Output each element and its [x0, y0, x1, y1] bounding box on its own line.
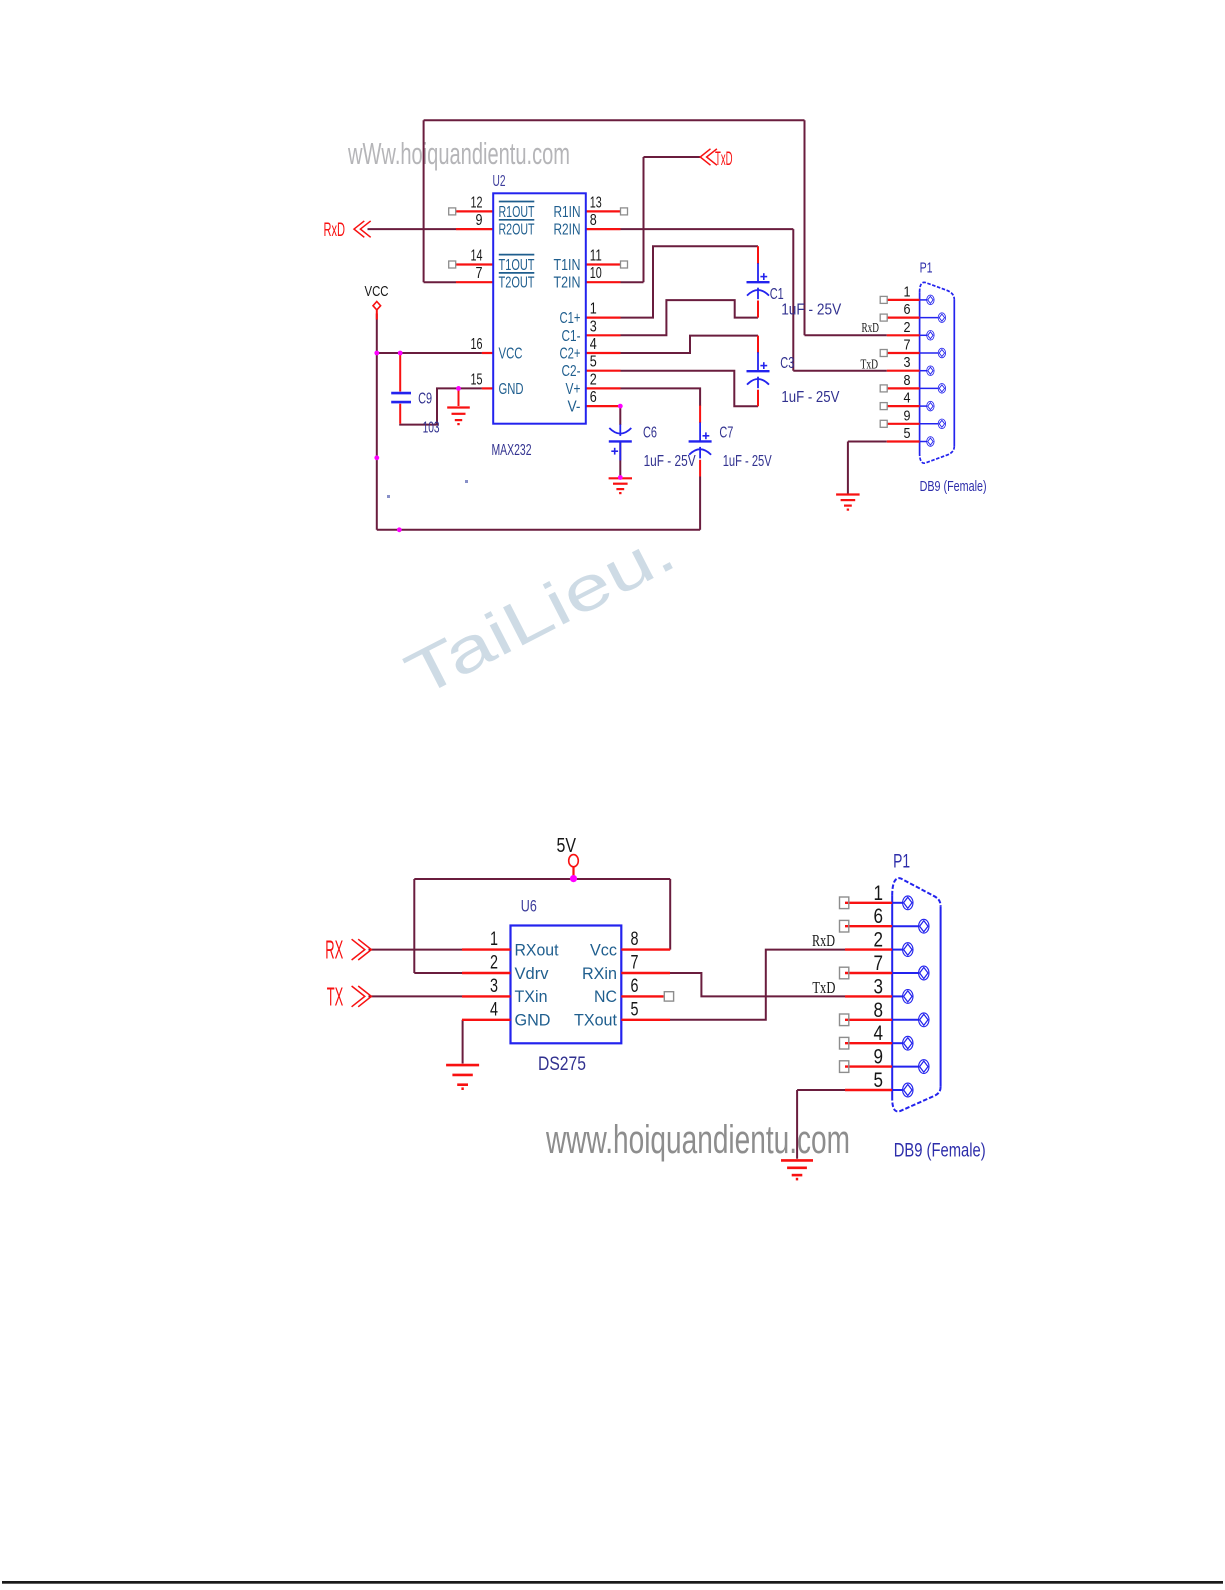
TxD chevrons [700, 149, 717, 165]
DB9-A pin 5 red stub [887, 440, 920, 442]
svg-text:C1+: C1+ [560, 310, 581, 327]
DB9-A no-connect square pin 9 [880, 420, 887, 427]
ground stem at pin 15 [458, 388, 460, 406]
svg-text:5V: 5V [557, 834, 577, 857]
svg-text:DB9 (Female): DB9 (Female) [920, 479, 987, 495]
DB9-B pin 6 socket [892, 919, 929, 933]
DB9-A no-connect square pin 1 [880, 296, 887, 303]
pin 8 R2IN stub [586, 228, 621, 230]
VCC power symbol [373, 302, 381, 320]
svg-text:C2+: C2+ [560, 346, 581, 363]
svg-text:7: 7 [904, 337, 911, 354]
svg-text:C1: C1 [770, 286, 784, 303]
wire C1- pin3 to C1 bottom [621, 300, 759, 335]
underline R1OUT [499, 219, 535, 221]
no-connect square pin 11 [621, 261, 628, 268]
overline R1OUT [499, 201, 535, 203]
svg-text:16: 16 [471, 336, 483, 353]
wire top net (T2OUT to DB9 pin2) horizontal [424, 119, 805, 121]
DB9-A pin 7 socket [920, 348, 946, 358]
pin 1 C1+ stub [586, 317, 621, 319]
svg-text:2: 2 [590, 371, 597, 388]
wire vertical x=793.3 (R2IN down to TxD row) [792, 229, 794, 371]
wire C6 bottom to ground [619, 441, 621, 477]
wire R2IN pin 8 to right [621, 228, 794, 230]
svg-text:1uF - 25V: 1uF - 25V [723, 453, 772, 470]
ground under C6 [609, 478, 632, 493]
svg-text:1: 1 [904, 283, 911, 300]
C7 top red lead [699, 406, 701, 424]
DB9-A pin 3 red stub [887, 370, 920, 372]
pin 4 C2+ stub [586, 352, 621, 354]
DB9-A pin 3 socket [920, 366, 935, 376]
junction above ground under C6 [618, 475, 623, 480]
C9 bottom red lead [399, 404, 401, 424]
svg-text:R1IN: R1IN [554, 204, 581, 221]
DB9-B pin 4 socket [892, 1036, 913, 1050]
svg-text:1: 1 [874, 882, 884, 905]
capacitor C3 [747, 352, 770, 388]
wire T2OUT pin 7 from left vertical [424, 281, 456, 283]
wire RxD row to DB9-A pin 2 [805, 334, 887, 336]
svg-text:1uF - 25V: 1uF - 25V [644, 453, 697, 470]
DB9-B pin 2 red stub [845, 948, 892, 950]
svg-text:DB9 (Female): DB9 (Female) [894, 1140, 986, 1162]
wire GND pin4 drop [462, 1020, 464, 1064]
connector P1 DB9 outline (bottom schematic) [892, 878, 940, 1111]
svg-text:C9: C9 [418, 391, 432, 408]
ground at GND pin 15 [447, 408, 470, 425]
pin 10 T2IN stub [586, 281, 621, 283]
svg-text:RxD: RxD [812, 931, 835, 950]
svg-text:RxD: RxD [862, 320, 880, 335]
svg-text:NC: NC [594, 987, 617, 1006]
svg-text:T1OUT: T1OUT [499, 257, 535, 274]
DB9-B no-connect square pin 8 [840, 1014, 849, 1026]
DB9-B no-connect square pin 4 [840, 1037, 849, 1049]
DB9-B pin 5 red stub [845, 1089, 892, 1091]
svg-text:6: 6 [631, 976, 639, 997]
pin 16 VCC stub [482, 352, 493, 354]
pin 11 T1IN stub [586, 263, 621, 265]
no-connect square pin 14 [449, 261, 456, 268]
svg-text:6: 6 [874, 905, 884, 928]
svg-text:5: 5 [874, 1069, 884, 1092]
DS275 pin 2 Vdrv stub [462, 972, 511, 974]
DB9-A pin 8 red stub [887, 387, 920, 389]
DS275 pin 5 TXout stub [621, 1019, 670, 1021]
C9 top red lead [399, 355, 401, 392]
svg-text:GND: GND [515, 1011, 551, 1030]
wire RXin to DB9-B pin 3 [670, 973, 845, 996]
wire RxD arrow to R2OUT pin 9 [368, 228, 457, 230]
wire VCC rail to pin 16 [377, 352, 482, 354]
svg-text:V-: V- [568, 399, 581, 416]
DB9-A no-connect square pin 6 [880, 314, 887, 321]
wire vertical ground drop x=847.9 [847, 442, 849, 494]
DB9-A pin 2 socket [920, 331, 935, 341]
svg-text:RXin: RXin [582, 964, 617, 983]
svg-text:15: 15 [471, 371, 483, 388]
DB9-A pin 9 socket [920, 419, 946, 429]
svg-text:8: 8 [874, 999, 884, 1022]
wire T2IN pin 10 to x=643.5 [621, 281, 644, 283]
DB9-A pin 7 red stub [887, 352, 920, 354]
svg-text:1uF - 25V: 1uF - 25V [781, 389, 840, 406]
DS275 pin 7 RXin stub [621, 972, 670, 974]
junction on bottom rail [397, 527, 402, 532]
C3 bottom red lead [757, 390, 759, 407]
wire ground drop x=797.1 [796, 1090, 798, 1159]
svg-text:MAX232: MAX232 [492, 442, 532, 459]
DB9-B pin 4 red stub [845, 1042, 892, 1044]
DB9-A pin 5 socket [920, 437, 935, 447]
svg-text:TxD: TxD [861, 357, 879, 372]
svg-text:RXout: RXout [515, 940, 559, 959]
svg-text:VCC: VCC [365, 284, 389, 300]
RX chevrons [352, 939, 372, 960]
wire vertical x=643.5 (T2IN up to TxD arrow) [643, 157, 645, 282]
wire C9 bottom to GND pin 15 net [400, 388, 482, 424]
stray speck 1 [465, 480, 468, 483]
connector P1 DB9 outline (top schematic) [920, 282, 955, 463]
svg-text:wWw.hoiquandientu.com: wWw.hoiquandientu.com [347, 136, 570, 171]
wire bottom rail (VCC to C7 bottom) [377, 529, 700, 531]
wire TX arrow to TXin [369, 995, 463, 997]
wire V+ pin2 down to C7 [621, 388, 701, 406]
svg-text:GND: GND [499, 381, 524, 398]
capacitor C1 [747, 263, 770, 299]
svg-text:9: 9 [904, 407, 911, 424]
svg-text:103: 103 [423, 420, 440, 437]
wire VCC vertical x=376.8 [376, 314, 378, 530]
DB9-B no-connect square pin 1 [840, 897, 849, 909]
svg-text:4: 4 [874, 1022, 884, 1045]
svg-text:C7: C7 [719, 425, 733, 442]
DB9-A pin 4 red stub [887, 405, 920, 407]
DB9-B pin 1 socket [892, 896, 913, 910]
svg-text:R2OUT: R2OUT [499, 222, 535, 239]
svg-text:TXin: TXin [515, 987, 548, 1006]
DB9-B no-connect square pin 6 [840, 920, 849, 932]
pin 2 V+ stub [586, 387, 621, 389]
stray speck 2 [387, 495, 390, 498]
op-amp U6 DS275 chip body [511, 926, 622, 1044]
svg-text:7: 7 [476, 265, 483, 282]
underline T1OUT [499, 272, 535, 274]
wire DB9-B pin5 to ground [797, 1089, 845, 1091]
TX chevrons [352, 986, 372, 1007]
ground at DS275 pin 4 [446, 1065, 479, 1089]
svg-text:C1-: C1- [562, 328, 581, 345]
wire TxD arrow horizontal [644, 156, 701, 158]
svg-text:T1IN: T1IN [554, 257, 581, 274]
DB9-A pin 8 socket [920, 384, 946, 394]
wire left vertical x=423.6 (top net down to T2OUT) [423, 120, 425, 282]
svg-text:11: 11 [590, 248, 602, 265]
svg-text:T2IN: T2IN [554, 275, 581, 292]
DB9-B pin 3 socket [892, 990, 913, 1004]
5V power symbol [569, 855, 579, 879]
DB9-A no-connect square pin 7 [880, 350, 887, 357]
svg-text:RxD: RxD [324, 220, 346, 241]
DS275 pin 6 NC stub [621, 995, 663, 997]
junction VCC rail at C9 [398, 351, 403, 356]
svg-text:8: 8 [590, 212, 597, 229]
junction GND pin15 net [456, 386, 461, 391]
DB9-A no-connect square pin 4 [880, 403, 887, 410]
DB9-A pin 9 red stub [887, 423, 920, 425]
svg-text:2: 2 [874, 929, 884, 952]
DB9-B pin 3 red stub [845, 995, 892, 997]
wire DB9-A pin5 to ground drop [848, 441, 887, 443]
capacitor C6 (flipped) [609, 424, 632, 460]
pin 12 R1OUT stub [456, 210, 493, 212]
wire Vdrv row [414, 972, 462, 974]
ground under DB9-B pin 5 [781, 1160, 813, 1179]
DS275 pin 4 GND stub [462, 1019, 511, 1021]
pin 14 T1OUT stub [456, 263, 493, 265]
DB9-A pin 4 socket [920, 401, 935, 411]
DB9-B pin 9 red stub [845, 1065, 892, 1067]
svg-text:8: 8 [904, 372, 911, 389]
svg-text:14: 14 [471, 248, 483, 265]
svg-text:RX: RX [325, 935, 343, 965]
overline T1OUT [499, 254, 535, 256]
DB9-B pin 9 socket [892, 1060, 929, 1074]
svg-text:1: 1 [590, 301, 597, 318]
svg-text:12: 12 [471, 194, 483, 211]
svg-text:3: 3 [490, 976, 498, 997]
svg-text:9: 9 [874, 1046, 884, 1069]
wire RX arrow to RXout [369, 949, 463, 951]
svg-text:Vcc: Vcc [590, 940, 617, 959]
DB9-B pin 6 red stub [845, 925, 892, 927]
svg-text:4: 4 [490, 999, 498, 1020]
no-connect square DS275 pin 6 [664, 992, 673, 1001]
DB9-B no-connect square pin 9 [840, 1061, 849, 1073]
svg-text:6: 6 [904, 301, 911, 318]
svg-text:4: 4 [904, 390, 911, 407]
wire C2- pin5 to C3 bottom [621, 371, 759, 407]
C1 bottom red lead [757, 301, 759, 318]
svg-text:TX: TX [327, 982, 344, 1012]
svg-text:T2OUT: T2OUT [499, 275, 535, 292]
C1 top red lead [757, 246, 759, 264]
svg-text:3: 3 [874, 975, 884, 998]
svg-text:1: 1 [490, 929, 498, 950]
svg-text:3: 3 [590, 318, 597, 335]
svg-text:V+: V+ [566, 381, 581, 398]
svg-text:7: 7 [874, 952, 884, 975]
svg-text:Vdrv: Vdrv [515, 964, 549, 983]
svg-text:2: 2 [490, 953, 498, 974]
svg-text:3: 3 [904, 354, 911, 371]
DB9-B pin 8 socket [892, 1013, 929, 1027]
svg-text:P1: P1 [920, 261, 933, 277]
wire rail right vertical x=670.2 to Vcc [669, 879, 671, 950]
svg-text:U2: U2 [493, 173, 506, 190]
junction VCC rail at vertical [374, 351, 379, 356]
page footer rule [2, 1581, 1223, 1584]
svg-text:13: 13 [590, 194, 602, 211]
svg-text:DS275: DS275 [538, 1054, 586, 1075]
svg-text:7: 7 [631, 953, 639, 974]
svg-text:TXout: TXout [574, 1011, 617, 1030]
DB9-A pin 1 socket [920, 295, 935, 305]
wire TXout to DB9-B pin 2 [670, 950, 845, 1020]
capacitor C7 [689, 422, 712, 458]
DB9-A no-connect square pin 8 [880, 385, 887, 392]
pin 13 R1IN stub [586, 210, 621, 212]
svg-text:TxD: TxD [812, 978, 835, 997]
svg-text:TxD: TxD [715, 149, 733, 170]
op-amp U2 MAX232 chip body [493, 193, 586, 423]
no-connect square pin 12 [449, 208, 456, 215]
DB9-B pin 8 red stub [845, 1019, 892, 1021]
svg-text:C6: C6 [643, 425, 657, 442]
junction 5V rail [570, 875, 577, 882]
watermark TaiLieu. (diagonal) [395, 516, 686, 711]
capacitor C9 [391, 393, 411, 402]
DB9-A pin 6 socket [920, 313, 946, 323]
svg-text:10: 10 [590, 265, 602, 282]
svg-text:6: 6 [590, 389, 597, 406]
svg-text:P1: P1 [893, 852, 910, 873]
wire C2+ pin4 to C3 top [621, 336, 759, 353]
DB9-B pin 5 socket [892, 1083, 913, 1097]
C3 top red lead [757, 336, 759, 354]
pin 5 C2- stub [586, 370, 621, 372]
DB9-B pin 2 socket [892, 943, 913, 957]
junction on VCC vertical [374, 455, 379, 460]
DB9-A pin 2 red stub [887, 334, 920, 336]
svg-text:4: 4 [590, 336, 597, 353]
DS275 pin 8 Vcc stub [621, 948, 670, 950]
svg-text:R1OUT: R1OUT [499, 204, 535, 221]
pin 15 GND stub [482, 387, 493, 389]
svg-text:5: 5 [631, 999, 639, 1020]
svg-text:5: 5 [904, 425, 911, 442]
C7 bottom red lead [699, 460, 701, 477]
DB9-A pin 1 red stub [887, 299, 920, 301]
svg-text:1uF - 25V: 1uF - 25V [781, 302, 842, 319]
wire V- pin6 down to C6 [619, 406, 621, 425]
svg-text:8: 8 [631, 929, 639, 950]
svg-text:C3: C3 [780, 355, 794, 372]
wire C7 bottom down [699, 477, 701, 530]
wire TxD row to DB9-A pin 3 [793, 370, 887, 372]
no-connect square pin 13 [621, 208, 628, 215]
wire rail left vertical x=414.3 [413, 879, 415, 973]
wire right vertical x=804.5 (top net down to RxD row) [804, 120, 806, 335]
pin 9 R2OUT stub [456, 228, 493, 230]
wire 5V rail [414, 878, 670, 880]
svg-text:www.hoiquandientu.com: www.hoiquandientu.com [545, 1118, 850, 1162]
DB9-B pin 7 red stub [845, 972, 892, 974]
DS275 pin 1 RXout stub [462, 948, 511, 950]
svg-text:9: 9 [476, 212, 483, 229]
DS275 pin 3 TXin stub [462, 995, 511, 997]
pin 7 T2OUT stub [456, 281, 493, 283]
svg-text:VCC: VCC [499, 346, 523, 363]
DB9-B no-connect square pin 7 [840, 967, 849, 979]
DB9-B pin 1 red stub [845, 902, 892, 904]
DB9-B pin 7 socket [892, 966, 929, 980]
svg-text:C2-: C2- [562, 363, 581, 380]
pin 3 C1- stub [586, 334, 621, 336]
wire C1+ pin1 to C1 top [621, 246, 759, 317]
svg-text:2: 2 [904, 319, 911, 336]
pin 6 V- stub [586, 405, 621, 407]
svg-text:5: 5 [590, 354, 597, 371]
junction V- pin6 [618, 404, 623, 409]
svg-text:R2IN: R2IN [554, 222, 581, 239]
DB9-A pin 6 red stub [887, 317, 920, 319]
RxD chevrons [354, 221, 371, 237]
svg-text:U6: U6 [521, 897, 537, 916]
ground under DB9-A pin 5 [836, 495, 860, 510]
